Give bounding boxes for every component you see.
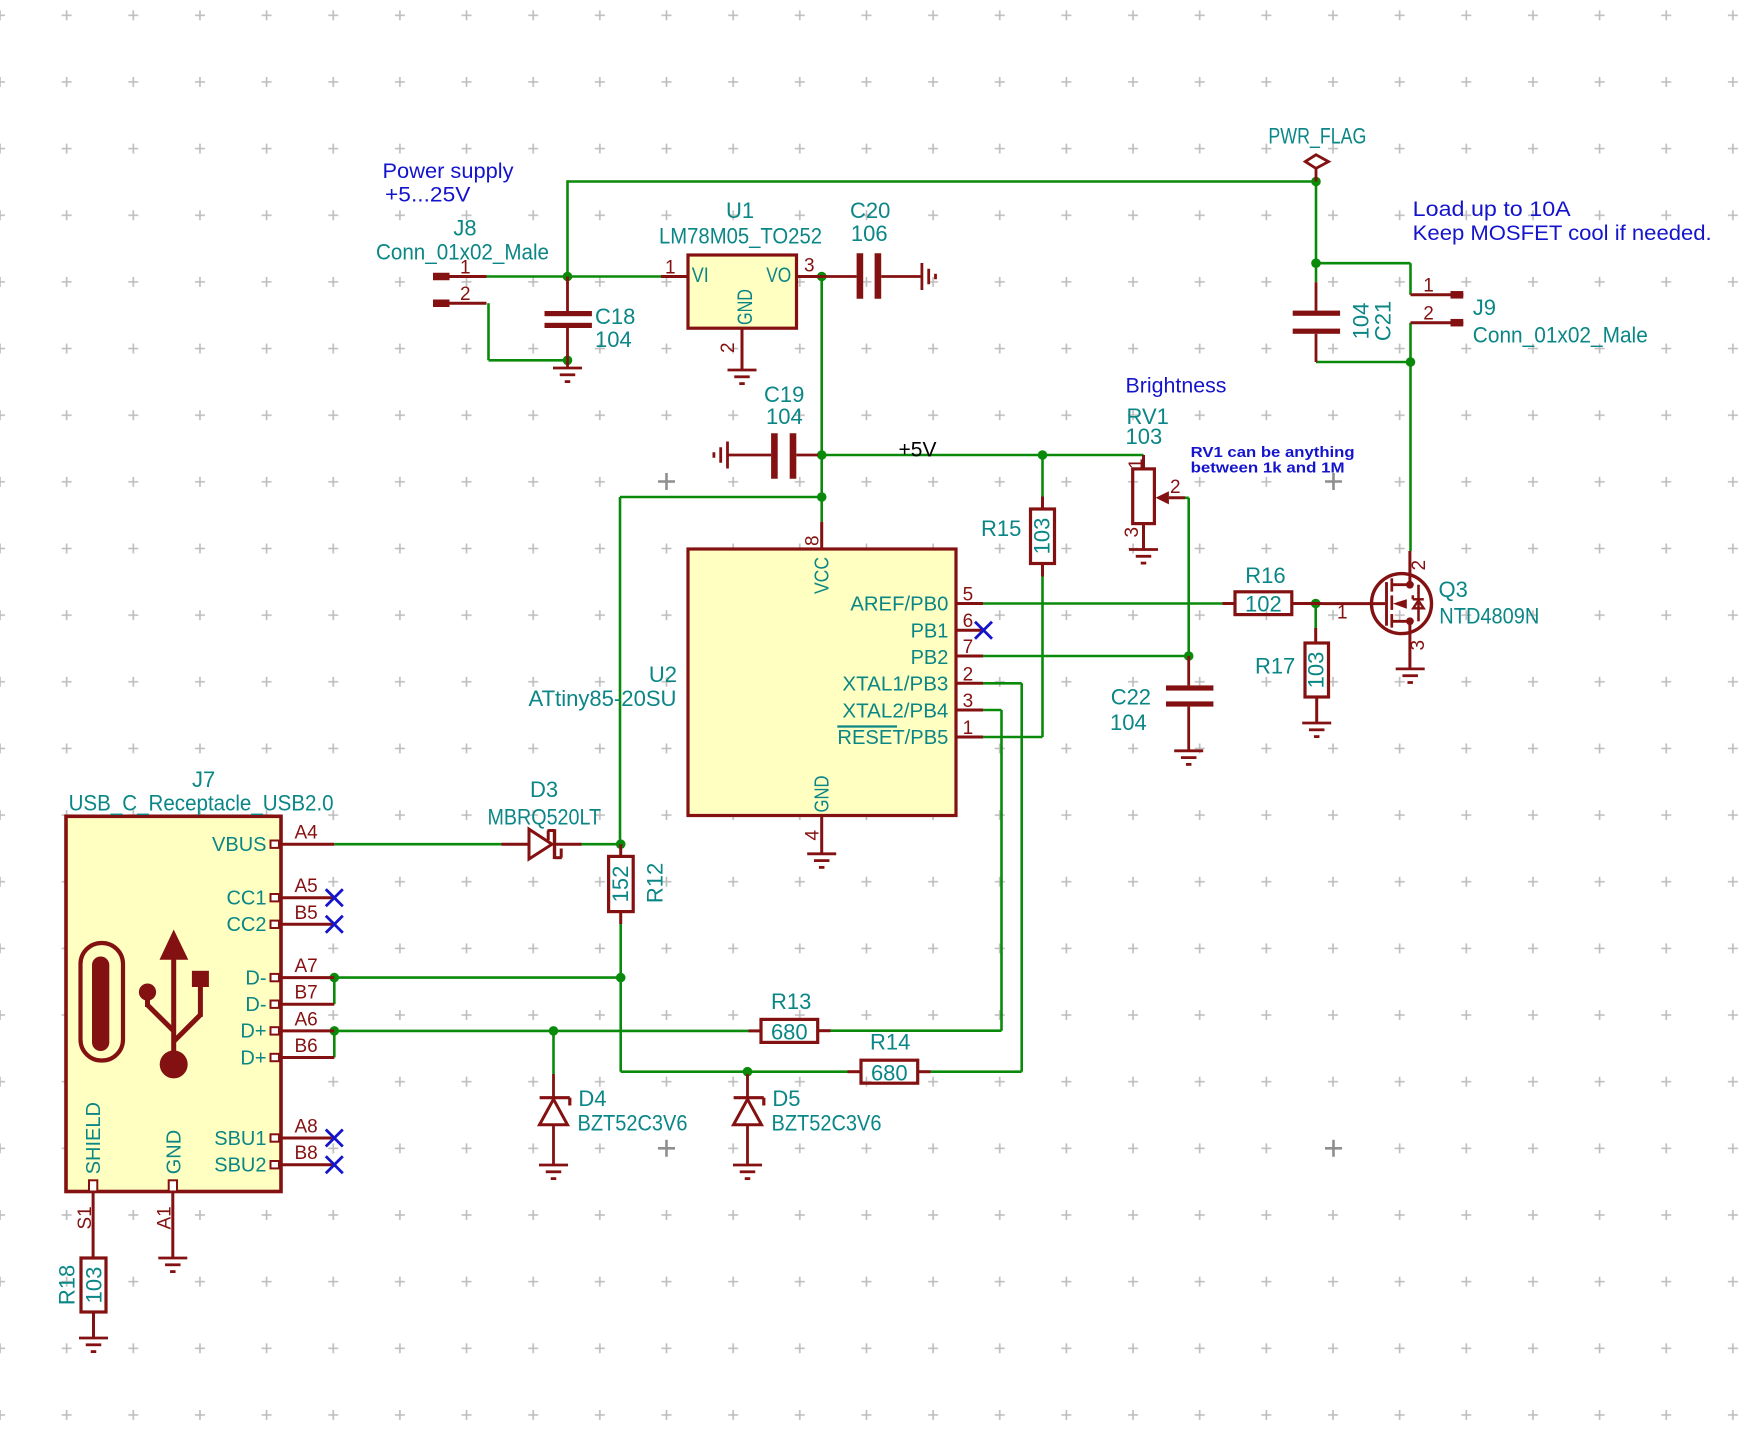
U1 pin name VI xyxy=(692,264,709,287)
U2 pin 1 xyxy=(956,718,983,739)
svg-text:Conn_01x02_Male: Conn_01x02_Male xyxy=(1473,323,1648,348)
junction PWR_FLAG xyxy=(1311,177,1321,187)
svg-text:R17: R17 xyxy=(1255,654,1295,679)
svg-text:VCC: VCC xyxy=(812,557,834,594)
svg-text:CC2: CC2 xyxy=(226,914,266,936)
svg-text:+5...25V: +5...25V xyxy=(385,184,470,207)
junction C21 bottom/J9/Q3 xyxy=(1406,357,1416,367)
resistor R12 xyxy=(609,844,634,924)
svg-text:1: 1 xyxy=(1423,276,1434,297)
svg-text:C22: C22 xyxy=(1111,685,1151,710)
svg-text:CC1: CC1 xyxy=(226,888,266,910)
svg-text:Brightness: Brightness xyxy=(1126,375,1227,398)
junction U1 VO/C20 xyxy=(817,272,827,282)
svg-text:S1: S1 xyxy=(75,1206,96,1229)
transistor Q3 gate lead xyxy=(1322,603,1385,624)
wire C21 top to J9 pin1 xyxy=(1316,263,1411,295)
junction D4 xyxy=(549,1026,559,1036)
svg-text:D-: D- xyxy=(245,994,266,1016)
label LM78M05_TO252 xyxy=(659,224,822,249)
svg-text:C18: C18 xyxy=(595,304,635,329)
U2 pin name RESET/PB5 xyxy=(837,727,948,750)
svg-text:R15: R15 xyxy=(981,516,1021,541)
value R16 xyxy=(1245,592,1282,617)
svg-text:102: 102 xyxy=(1245,592,1282,617)
J7 pin A7 D- xyxy=(245,956,334,989)
label RV1 xyxy=(1126,404,1169,449)
label BZT52C3V6 D4 xyxy=(578,1110,688,1135)
J7 pin A8 SBU1 xyxy=(214,1117,334,1150)
U2 pin 3 xyxy=(956,691,983,712)
svg-text:2: 2 xyxy=(460,284,471,305)
label R13 xyxy=(771,989,811,1014)
capacitor C21 xyxy=(1293,282,1340,362)
U2 pin 7 xyxy=(956,637,983,658)
ground C18 xyxy=(553,360,582,381)
potentiometer RV1 body xyxy=(1133,469,1155,524)
pin 2 label J8 xyxy=(460,284,471,305)
svg-text:5: 5 xyxy=(963,585,974,606)
svg-text:VO: VO xyxy=(766,264,791,287)
label ATtiny85-20SU xyxy=(529,686,677,711)
svg-text:1: 1 xyxy=(1126,458,1147,469)
wire R15 top xyxy=(1041,455,1044,497)
resistor R17 xyxy=(1305,628,1329,723)
connector J7 body xyxy=(66,816,281,1191)
svg-text:D5: D5 xyxy=(772,1086,800,1111)
svg-text:C21: C21 xyxy=(1371,301,1396,341)
wire D4 link xyxy=(552,1031,555,1074)
svg-text:8: 8 xyxy=(803,535,824,546)
svg-text:J7: J7 xyxy=(192,767,215,792)
junction PB2/RV1/C22 xyxy=(1184,651,1194,661)
value R12 xyxy=(608,866,633,903)
svg-text:PWR_FLAG: PWR_FLAG xyxy=(1268,124,1366,149)
Q3 drain pin xyxy=(1409,551,1430,585)
wire VCC branch left xyxy=(620,496,822,499)
wire top rail from J8 to PWR_FLAG xyxy=(568,180,1317,183)
svg-text:GND: GND xyxy=(734,289,757,325)
connector J8 xyxy=(433,277,487,304)
U2 pin name PB1 xyxy=(911,620,949,642)
ground C20 xyxy=(922,263,936,290)
no-connect SBU1 xyxy=(326,1130,343,1147)
ground D4 xyxy=(539,1165,568,1179)
svg-text:680: 680 xyxy=(771,1020,808,1045)
regulator U1 body xyxy=(688,255,797,328)
note RV1 range xyxy=(1191,444,1355,477)
svg-text:104: 104 xyxy=(766,404,803,429)
label C20 xyxy=(850,198,890,246)
label BZT52C3V6 D5 xyxy=(772,1110,882,1135)
svg-text:R14: R14 xyxy=(870,1029,910,1054)
label D4 xyxy=(578,1086,606,1111)
ground A1 xyxy=(158,1258,187,1272)
label R15 xyxy=(981,516,1021,541)
svg-text:B7: B7 xyxy=(295,983,318,1004)
svg-text:R18: R18 xyxy=(55,1265,80,1305)
pin 1 label J8 xyxy=(460,258,471,279)
resistor R16 xyxy=(1223,592,1323,615)
svg-text:1: 1 xyxy=(963,718,974,739)
J7 pin A6 D+ xyxy=(240,1009,334,1042)
no-connect CC2 xyxy=(326,916,343,933)
U2 pin name XTAL1/PB3 xyxy=(842,674,948,696)
wire XTAL2/PB4 to R13 xyxy=(983,710,1002,1031)
J7 pin B8 SBU2 xyxy=(214,1143,334,1176)
pin 1 label J9 xyxy=(1423,276,1434,297)
svg-text:B8: B8 xyxy=(295,1143,318,1164)
ground R18 xyxy=(79,1338,108,1352)
svg-text:U2: U2 xyxy=(649,662,677,687)
label USB_C_Receptacle_USB2.0 xyxy=(69,791,334,816)
value R13 xyxy=(771,1020,808,1045)
svg-text:A4: A4 xyxy=(295,823,319,844)
svg-text:RV1 can be anything: RV1 can be anything xyxy=(1191,444,1355,461)
svg-text:VI: VI xyxy=(692,264,709,287)
wire U1 VO down rail xyxy=(820,277,823,522)
svg-text:1: 1 xyxy=(1337,603,1348,624)
svg-text:3: 3 xyxy=(1408,640,1429,651)
wire PWR_FLAG down to C21 xyxy=(1315,182,1318,283)
svg-text:104: 104 xyxy=(595,327,632,352)
U2 pin name GND xyxy=(812,776,834,813)
svg-text:R12: R12 xyxy=(643,863,668,903)
svg-text:D3: D3 xyxy=(530,777,558,802)
note brightness xyxy=(1126,375,1227,398)
wire B7 link xyxy=(333,978,336,1005)
wire RESET/PB5 to R15 xyxy=(983,577,1043,738)
pin 2 label J9 xyxy=(1423,304,1434,325)
label J9 xyxy=(1473,295,1496,320)
svg-text:D-: D- xyxy=(245,967,266,989)
label R16 xyxy=(1245,563,1285,588)
svg-text:J9: J9 xyxy=(1473,295,1496,320)
svg-text:SBU1: SBU1 xyxy=(214,1128,266,1150)
svg-text:XTAL1/PB3: XTAL1/PB3 xyxy=(842,674,948,696)
U1 pin 3 VO xyxy=(797,256,822,277)
label R14 xyxy=(870,1029,910,1054)
svg-text:R16: R16 xyxy=(1245,563,1285,588)
label R12 xyxy=(643,863,668,903)
J7 pin B6 D+ xyxy=(240,1036,334,1069)
U1 pin 1 VI xyxy=(661,258,688,279)
U2 pin 6 xyxy=(956,611,983,632)
J7 pin S1 SHIELD xyxy=(75,1102,105,1258)
svg-text:MBRQ520LT: MBRQ520LT xyxy=(488,805,602,830)
svg-text:PB2: PB2 xyxy=(911,647,949,669)
junction R12/D- xyxy=(616,973,626,983)
U2 pin name VCC xyxy=(812,557,834,594)
svg-text:6: 6 xyxy=(963,611,974,632)
value R14 xyxy=(871,1060,908,1085)
wire AREF/PB0 to R16 xyxy=(983,602,1223,605)
wire to Q3 drain xyxy=(1409,362,1412,551)
wire R13 to XTAL2 riser xyxy=(831,1029,1002,1032)
junction C18 bottom xyxy=(563,356,573,366)
svg-text:106: 106 xyxy=(851,221,888,246)
svg-text:between 1k and 1M: between 1k and 1M xyxy=(1191,460,1345,477)
label U2 xyxy=(649,662,677,687)
label C19 xyxy=(764,382,804,429)
svg-text:3: 3 xyxy=(1122,527,1143,538)
svg-text:D+: D+ xyxy=(240,1047,266,1069)
label MBRQ520LT xyxy=(488,805,602,830)
svg-text:+5V: +5V xyxy=(899,438,937,461)
no-connect SBU2 xyxy=(326,1156,343,1173)
svg-text:C20: C20 xyxy=(850,198,890,223)
label J8 xyxy=(453,216,476,241)
RV1 wiper xyxy=(1156,477,1186,504)
wire D+ row xyxy=(334,1030,748,1033)
J7 usb trident icon xyxy=(139,930,209,1079)
note load xyxy=(1413,198,1712,245)
connector J9 xyxy=(1411,295,1464,323)
svg-text:GND: GND xyxy=(164,1130,186,1174)
svg-text:103: 103 xyxy=(1030,518,1055,555)
wire R16 R17 gate node xyxy=(1314,604,1317,629)
junction A7 D- xyxy=(330,973,340,983)
J7 pin A5 CC1 xyxy=(226,876,334,909)
capacitor C18 xyxy=(545,277,592,361)
wire RV1 wiper down xyxy=(1185,498,1189,656)
U2 pin 5 xyxy=(956,585,983,606)
ground U1 xyxy=(728,370,757,384)
resistor R14 xyxy=(848,1060,931,1083)
wire vertical J8 pin1 up xyxy=(566,180,569,276)
svg-text:104: 104 xyxy=(1110,710,1147,735)
svg-text:152: 152 xyxy=(608,866,633,903)
svg-text:2: 2 xyxy=(1409,560,1430,571)
svg-text:U1: U1 xyxy=(726,198,754,223)
label Conn_01x02_Male J8 xyxy=(376,239,549,264)
svg-text:Keep MOSFET cool if needed.: Keep MOSFET cool if needed. xyxy=(1413,222,1712,245)
U2 pin name PB2 xyxy=(911,647,949,669)
wire VBUS row xyxy=(334,843,620,846)
J7 pin B7 D- xyxy=(245,983,334,1016)
ground RV1 xyxy=(1129,550,1158,564)
capacitor C20 xyxy=(822,253,922,299)
label C21 value xyxy=(1349,303,1374,340)
note power supply xyxy=(383,160,515,207)
svg-text:D+: D+ xyxy=(240,1021,266,1043)
svg-text:4: 4 xyxy=(803,830,824,841)
ground R17 xyxy=(1302,723,1331,737)
svg-text:D4: D4 xyxy=(578,1086,606,1111)
wire PB2 row xyxy=(983,655,1189,658)
ground Q3 xyxy=(1396,669,1425,683)
zener diode D4 xyxy=(540,1074,570,1165)
RV1 pin3 xyxy=(1122,524,1144,549)
svg-text:7: 7 xyxy=(963,637,974,658)
wire R12 bottom link xyxy=(619,924,622,978)
junction VCC branch xyxy=(817,492,827,502)
label R17 xyxy=(1255,654,1295,679)
svg-text:BZT52C3V6: BZT52C3V6 xyxy=(772,1110,882,1135)
svg-text:A8: A8 xyxy=(295,1117,318,1138)
svg-text:A7: A7 xyxy=(295,956,318,977)
U2 pin 8 VCC xyxy=(803,522,824,549)
wire vertical to VBUS junction xyxy=(619,497,622,844)
junction A6 D+ xyxy=(330,1026,340,1036)
svg-text:NTD4809N: NTD4809N xyxy=(1439,604,1539,629)
resistor R13 xyxy=(749,1019,831,1042)
svg-text:A5: A5 xyxy=(295,876,318,897)
junction D5 xyxy=(743,1067,753,1077)
svg-text:680: 680 xyxy=(871,1060,908,1085)
wire XTAL1/PB3 to R14 xyxy=(983,683,1022,1071)
svg-text:USB_C_Receptacle_USB2.0: USB_C_Receptacle_USB2.0 xyxy=(69,791,334,816)
svg-text:GND: GND xyxy=(812,776,834,813)
svg-text:A1: A1 xyxy=(155,1206,176,1229)
svg-text:Q3: Q3 xyxy=(1439,577,1468,602)
resistor R18 xyxy=(81,1258,106,1338)
svg-text:SHIELD: SHIELD xyxy=(83,1102,105,1174)
J7 usb-c oval icon xyxy=(81,943,124,1061)
svg-text:A6: A6 xyxy=(295,1009,318,1030)
label Q3 xyxy=(1439,577,1468,602)
junction D3/R12/VBUS xyxy=(616,839,626,849)
label D3 xyxy=(530,777,558,802)
svg-text:103: 103 xyxy=(1126,424,1163,449)
svg-text:B6: B6 xyxy=(295,1036,318,1057)
svg-text:VBUS: VBUS xyxy=(212,834,266,856)
svg-text:Conn_01x02_Male: Conn_01x02_Male xyxy=(376,239,549,264)
transistor Q3 body xyxy=(1372,574,1432,634)
label U1 xyxy=(726,198,754,223)
svg-text:J8: J8 xyxy=(453,216,476,241)
U2 pin name AREF/PB0 xyxy=(850,594,948,616)
J7 pin A4 VBUS xyxy=(212,823,334,856)
junction R16/R17/gate xyxy=(1311,599,1321,609)
wire J8 pin2 to C18 bottom xyxy=(489,303,568,360)
label Conn_01x02_Male J9 xyxy=(1473,323,1648,348)
label PWR_FLAG xyxy=(1268,124,1366,149)
svg-text:B5: B5 xyxy=(295,903,318,924)
svg-text:2: 2 xyxy=(1170,477,1181,498)
junction C21 top xyxy=(1311,258,1321,268)
label R18 xyxy=(55,1265,80,1305)
Q3 source pin xyxy=(1408,621,1429,669)
U1 pin name VO xyxy=(766,264,791,287)
mcu U2 body xyxy=(688,549,956,816)
label C18 xyxy=(595,304,635,352)
capacitor C22 xyxy=(1166,656,1213,750)
label C21 ref xyxy=(1371,301,1396,341)
svg-text:3: 3 xyxy=(963,691,974,712)
label NTD4809N xyxy=(1439,604,1539,629)
zener diode D5 xyxy=(734,1074,764,1165)
ground C22 xyxy=(1174,751,1203,765)
label C22 xyxy=(1110,685,1151,736)
wire R14 to XTAL1 riser xyxy=(931,1070,1022,1073)
wire J9 pin2 link xyxy=(1409,323,1412,362)
wire D- down to R14 row xyxy=(621,978,848,1072)
label J7 xyxy=(192,767,215,792)
svg-text:103: 103 xyxy=(1304,652,1329,689)
wire B6 link xyxy=(333,1031,336,1058)
label D5 xyxy=(772,1086,800,1111)
ground D5 xyxy=(733,1165,762,1179)
svg-text:3: 3 xyxy=(804,256,815,277)
J7 pin B5 CC2 xyxy=(226,903,334,936)
wire +5V rail xyxy=(822,454,1144,457)
U1 pin 2 GND xyxy=(718,328,742,369)
J7 pin A1 GND xyxy=(155,1130,186,1258)
svg-text:AREF/PB0: AREF/PB0 xyxy=(850,594,948,616)
wire C21 bottom row xyxy=(1316,361,1411,364)
svg-text:XTAL2/PB4: XTAL2/PB4 xyxy=(842,700,948,722)
svg-text:Load up to 10A: Load up to 10A xyxy=(1413,198,1571,221)
no-connect CC1 xyxy=(326,889,343,906)
value R15 xyxy=(1030,518,1055,555)
value R18 xyxy=(82,1267,107,1304)
svg-text:SBU2: SBU2 xyxy=(214,1155,266,1177)
U2 pin 4 GND xyxy=(803,816,824,854)
power flag PWR_FLAG xyxy=(1305,155,1328,182)
junction J8/C18/U1 xyxy=(563,272,573,282)
svg-text:ATtiny85-20SU: ATtiny85-20SU xyxy=(529,686,677,711)
wire D5 link xyxy=(746,1072,749,1080)
ground C19 xyxy=(714,442,728,469)
no-connect PB1 xyxy=(975,622,992,639)
capacitor C19 xyxy=(728,433,819,479)
svg-text:RESET/PB5: RESET/PB5 xyxy=(837,727,948,749)
diode D3 xyxy=(502,829,582,859)
resistor R15 xyxy=(1031,497,1055,577)
svg-text:BZT52C3V6: BZT52C3V6 xyxy=(578,1110,688,1135)
ground U2 xyxy=(807,854,836,868)
U2 pin name XTAL2/PB4 xyxy=(842,700,948,722)
svg-text:PB1: PB1 xyxy=(911,620,949,642)
junction +5V/C19 xyxy=(817,450,827,460)
RV1 pin1 xyxy=(1126,455,1147,469)
svg-text:R13: R13 xyxy=(771,989,811,1014)
U1 pin name GND xyxy=(734,289,757,325)
U2 pin 2 xyxy=(956,664,983,685)
wire D- row xyxy=(334,976,620,979)
svg-text:2: 2 xyxy=(718,342,739,353)
svg-text:103: 103 xyxy=(82,1267,107,1304)
svg-text:1: 1 xyxy=(665,258,676,279)
svg-text:LM78M05_TO252: LM78M05_TO252 xyxy=(659,224,822,249)
junction R15 top xyxy=(1038,450,1048,460)
wire J8 pin1 to U1 VI xyxy=(487,275,662,278)
svg-text:Power supply: Power supply xyxy=(383,160,515,183)
svg-text:2: 2 xyxy=(1423,304,1434,325)
net label +5V xyxy=(899,438,937,461)
svg-text:2: 2 xyxy=(963,664,974,685)
value R17 xyxy=(1304,652,1329,689)
